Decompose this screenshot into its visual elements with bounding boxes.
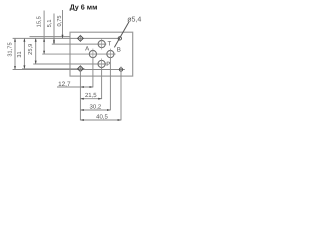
svg-text:25,9: 25,9: [28, 44, 34, 55]
dimension 30,2 horizontal: [80, 103, 110, 111]
svg-text:31,75: 31,75: [7, 42, 13, 56]
leader line d5.4: [114, 15, 141, 47]
mounting hole top-right circle (d5.4): [118, 37, 121, 40]
svg-text:40,5: 40,5: [96, 114, 108, 121]
dimension 21,5 horizontal: [80, 92, 101, 100]
port P circle: [98, 59, 110, 70]
extension line row BL hole y=68.8: [22, 68, 85, 70]
dimension 31,75 vertical line: [7, 38, 16, 69]
svg-text:Ду 6 мм: Ду 6 мм: [70, 2, 98, 11]
svg-text:21,5: 21,5: [85, 92, 97, 99]
dimension 40,5 horizontal: [80, 114, 121, 122]
svg-text:15,5: 15,5: [36, 16, 42, 27]
mounting hole top-left diamond: [78, 35, 84, 42]
port T circle: [98, 39, 111, 50]
extension vertical from P/T: [101, 68, 103, 99]
svg-text:B: B: [117, 47, 121, 54]
port B circle: [107, 47, 121, 60]
dimension 0,75 vertical line: [57, 10, 64, 38]
extension vertical from BR hole: [120, 72, 122, 120]
extension vertical from B: [109, 58, 111, 110]
mounting hole bottom-right circle: [119, 67, 122, 73]
svg-text:30,2: 30,2: [90, 103, 102, 110]
dimension 5,1 vertical line: [47, 14, 55, 45]
svg-text:31: 31: [17, 51, 23, 57]
svg-text:5,1: 5,1: [47, 19, 53, 27]
plate outline: [70, 32, 133, 76]
svg-text:0,75: 0,75: [57, 15, 63, 26]
mounting hole bottom-left diamond: [78, 65, 84, 72]
extension line row P y=64.0: [33, 63, 106, 65]
extension line row BR hole y=69.5: [13, 69, 125, 71]
dimension 12,7 horizontal: [57, 81, 93, 88]
extension vertical ref (from BL hole): [79, 71, 81, 121]
svg-text:12,7: 12,7: [58, 81, 71, 88]
dimension 31 vertical line: [17, 38, 26, 68]
port A circle: [85, 46, 96, 60]
dimension 25,9 vertical line: [28, 38, 37, 64]
svg-text:P: P: [106, 61, 110, 68]
extension line row 31.75 (upper, exaggerated): [30, 36, 71, 38]
extension line row T y=44.1: [52, 43, 107, 45]
dimension 15,5 vertical line: [36, 11, 45, 55]
svg-text:T: T: [108, 40, 112, 47]
extension line row A/B y=54.05: [42, 53, 115, 55]
extension vertical from A: [92, 58, 94, 87]
svg-text:A: A: [85, 46, 90, 53]
extension line row top holes y=38.1: [13, 37, 120, 39]
svg-text:ø5,4: ø5,4: [127, 15, 141, 23]
